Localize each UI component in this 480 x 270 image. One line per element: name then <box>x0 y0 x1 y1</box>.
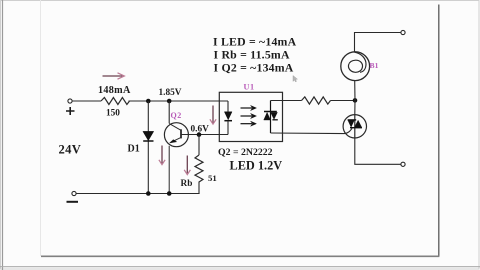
diode D1 <box>143 131 154 141</box>
canvas faint left border <box>40 0 42 256</box>
bottom rail wire <box>74 193 200 195</box>
svg-text:B1: B1 <box>370 61 379 70</box>
resistor 150 <box>101 98 130 105</box>
svg-text:24V: 24V <box>59 142 82 156</box>
node - terminal <box>72 191 76 195</box>
node dot lamp/triac <box>353 98 358 103</box>
wire triac bottom to terminal <box>355 138 401 164</box>
current arrow Rb <box>184 156 190 175</box>
node bottom-right terminal <box>401 162 405 166</box>
node dot bottom Q2 <box>167 191 172 196</box>
wire opto out top <box>271 100 302 102</box>
lamp B1 <box>341 52 370 81</box>
wire opto out gate <box>271 128 353 133</box>
wire LED anode drop <box>227 101 229 112</box>
current arrow I-source <box>103 73 125 79</box>
triac <box>343 115 366 138</box>
minus symbol <box>67 201 79 203</box>
mouse cursor <box>293 76 298 82</box>
svg-text:Q2 = 2N2222: Q2 = 2N2222 <box>218 147 273 158</box>
canvas right border <box>438 5 440 257</box>
plus symbol <box>66 107 75 115</box>
svg-text:U1: U1 <box>244 83 255 92</box>
transistor Q2 <box>164 123 188 194</box>
svg-text:1.85V: 1.85V <box>159 88 182 98</box>
wire + terminal to R150 <box>72 100 101 102</box>
wire R150 to rail <box>129 100 229 102</box>
wire Rb bottom <box>198 182 200 194</box>
svg-text:51: 51 <box>208 173 217 183</box>
frame bottom edge line <box>0 266 480 268</box>
svg-text:148mA: 148mA <box>98 85 131 96</box>
node dot Q2 collector <box>167 99 172 104</box>
node dot bottom D1 <box>146 191 151 196</box>
svg-text:I Q2 = ~134mA: I Q2 = ~134mA <box>214 60 294 74</box>
svg-text:LED 1.2V: LED 1.2V <box>230 158 283 172</box>
node top-right terminal <box>401 30 405 34</box>
current arrow D1 <box>159 146 165 165</box>
node + terminal <box>68 99 72 103</box>
wire Q2 base to node <box>181 134 228 136</box>
wire lamp top <box>355 33 402 53</box>
opto output diac <box>264 101 278 134</box>
optocoupler U1 box <box>219 92 282 141</box>
current arrow LED <box>210 106 216 125</box>
svg-text:I Rb = 11.5mA: I Rb = 11.5mA <box>214 47 290 61</box>
resistor Rb <box>195 155 203 182</box>
wire node to triac <box>354 100 356 114</box>
wire Rb top <box>198 135 200 155</box>
frame left edge line <box>2 0 4 270</box>
wire Q2 collector <box>168 101 170 123</box>
emission arrows <box>241 105 257 126</box>
wire lamp bottom <box>354 81 356 101</box>
wire D1 branch <box>147 101 149 194</box>
canvas bottom border <box>41 255 439 257</box>
node dot D1 top <box>146 99 151 104</box>
resistor gate R <box>302 97 331 104</box>
svg-text:Q2: Q2 <box>171 111 182 120</box>
svg-text:0.6V: 0.6V <box>191 125 210 135</box>
svg-text:D1: D1 <box>128 144 140 155</box>
node 0.6V dot <box>197 132 202 137</box>
svg-text:Rb: Rb <box>181 179 193 189</box>
wire LED cathode to 0.6V node <box>227 121 229 134</box>
opto LED <box>224 112 232 121</box>
svg-text:150: 150 <box>106 109 120 119</box>
wire R to node <box>331 100 356 102</box>
